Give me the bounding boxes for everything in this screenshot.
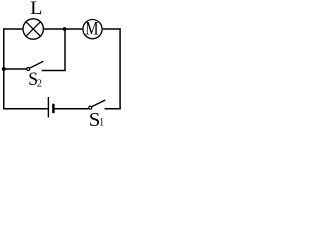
- svg-text:2: 2: [37, 78, 42, 90]
- svg-text:1: 1: [99, 115, 104, 126]
- svg-text:L: L: [30, 0, 42, 19]
- svg-text:M: M: [85, 20, 98, 40]
